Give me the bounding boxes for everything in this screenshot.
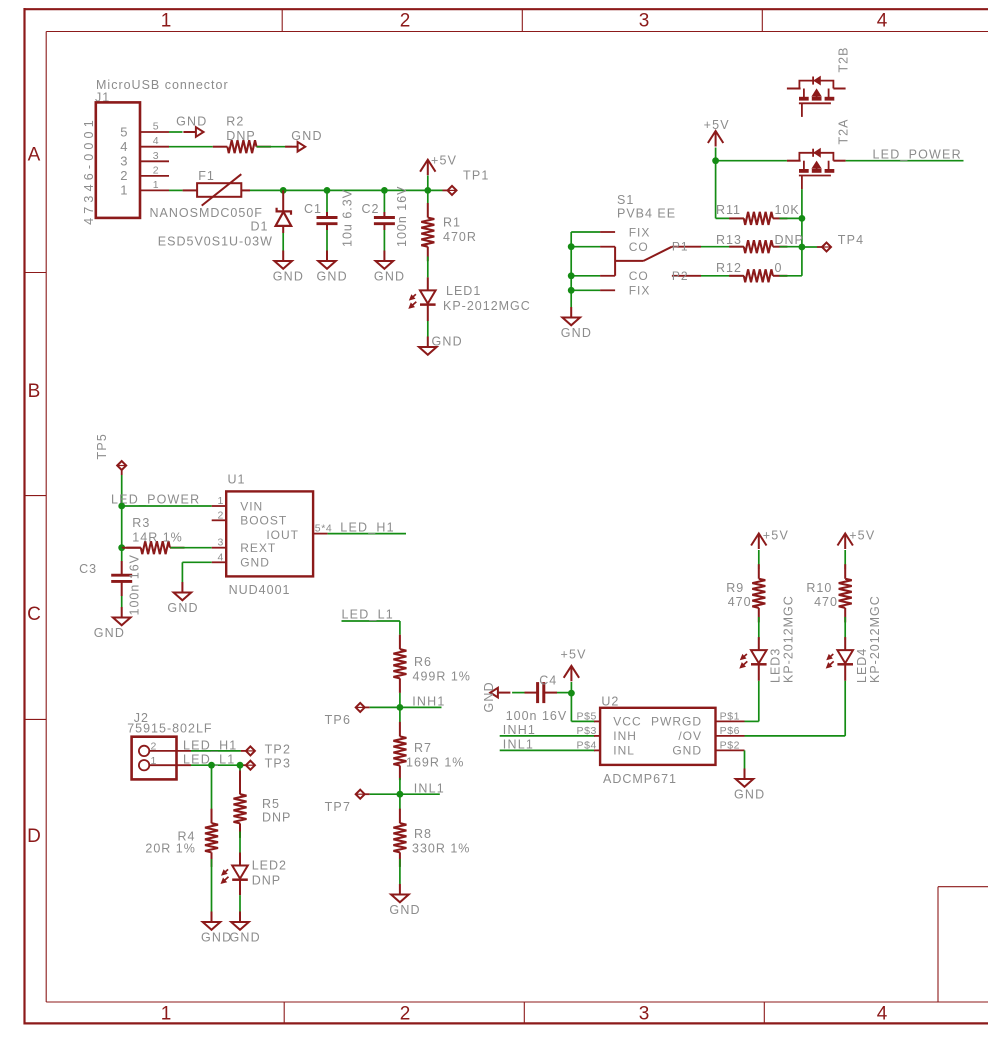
wire GND to C4	[512, 692, 524, 694]
wire R3 to U1 pin3	[171, 547, 212, 549]
fuse F1	[183, 169, 250, 206]
svg-text:1: 1	[161, 11, 172, 32]
wire P2 to R12	[701, 275, 744, 277]
svg-text:4: 4	[218, 551, 224, 563]
svg-text:+5V: +5V	[849, 529, 875, 543]
wire R13 to node	[780, 246, 802, 248]
svg-text:3: 3	[639, 11, 650, 32]
junction LED_POWER/TP5	[118, 503, 125, 510]
net LED_L1 wire (J2)	[183, 753, 246, 767]
svg-text:LED4: LED4	[855, 648, 869, 683]
svg-text:GND: GND	[273, 270, 304, 284]
svg-text:LED1: LED1	[446, 284, 481, 298]
wire LED2 to GND	[239, 895, 241, 911]
testpoint TP6	[325, 703, 365, 727]
transistor T2B	[787, 47, 851, 117]
connector J2 labels	[127, 711, 212, 736]
svg-text:470: 470	[728, 595, 752, 609]
svg-text:GND: GND	[482, 681, 496, 712]
svg-text:TP1: TP1	[463, 169, 490, 183]
wire pin5 to GND	[169, 131, 183, 133]
svg-text:0: 0	[775, 261, 783, 275]
svg-text:MicroUSB connector: MicroUSB connector	[96, 78, 229, 92]
resistor R4	[145, 809, 218, 867]
svg-text:LED2: LED2	[252, 859, 287, 873]
svg-text:INH1: INH1	[503, 723, 536, 737]
svg-text:ESD5V0S1U-03W: ESD5V0S1U-03W	[158, 235, 273, 249]
wire P$1 to LED3	[745, 681, 759, 722]
junction J2-R4	[208, 762, 215, 769]
svg-text:LED_H1: LED_H1	[340, 521, 394, 535]
svg-text:P1: P1	[672, 240, 689, 254]
svg-text:DNP: DNP	[262, 811, 291, 825]
net LED_POWER label (U1)	[111, 493, 200, 507]
wire R5 to LED2	[239, 832, 241, 853]
junction J2-R5	[237, 762, 244, 769]
wire C4 to +5V node	[557, 692, 571, 694]
ground (D1)	[273, 251, 304, 284]
wire INL1 node to R8	[399, 794, 401, 809]
svg-text:LED3: LED3	[769, 648, 783, 683]
svg-text:GND: GND	[317, 270, 348, 284]
diode D1	[251, 190, 292, 233]
svg-text:2: 2	[400, 11, 411, 32]
svg-text:GND: GND	[672, 743, 702, 757]
svg-text:C1: C1	[304, 202, 322, 216]
wire R8 to GND	[399, 859, 401, 884]
svg-text:1: 1	[218, 495, 224, 507]
svg-text:100n 16V: 100n 16V	[506, 709, 568, 723]
svg-text:C4: C4	[539, 674, 557, 688]
wire C1 to GND	[326, 230, 328, 251]
wire R10 to LED4	[844, 617, 846, 640]
wire +5V down to R11	[716, 161, 744, 219]
wire P1 to R13	[701, 246, 744, 248]
svg-text:20R 1%: 20R 1%	[145, 842, 195, 856]
junction gate/R11	[799, 215, 806, 222]
svg-text:1: 1	[151, 755, 157, 767]
svg-text:100n 16V: 100n 16V	[395, 185, 409, 247]
resistor R6	[393, 635, 471, 693]
svg-text:IOUT: IOUT	[266, 528, 299, 542]
svg-text:D: D	[27, 826, 41, 847]
svg-text:B: B	[28, 381, 41, 402]
svg-text:5: 5	[120, 124, 127, 139]
transistor T2A	[787, 119, 851, 190]
wire P$2 to GND	[744, 750, 746, 768]
ground (C2)	[374, 251, 405, 284]
svg-text:GND: GND	[167, 601, 198, 615]
wire pin4 to R2	[169, 146, 213, 148]
wire R2 to GND	[257, 146, 293, 148]
svg-text:NANOSMDC050F: NANOSMDC050F	[150, 206, 263, 220]
svg-text:LED_H1: LED_H1	[183, 738, 237, 752]
resistor R11	[716, 203, 800, 225]
svg-text:3: 3	[153, 150, 159, 162]
op-amp U1 (NUD4001)	[212, 473, 333, 598]
svg-text:T2B: T2B	[837, 47, 851, 73]
svg-text:3: 3	[120, 154, 127, 169]
junction S1 FIX2	[568, 287, 575, 294]
wire R11 to gate node	[780, 217, 802, 219]
svg-text:R7: R7	[414, 741, 432, 755]
ground (U2)	[734, 769, 765, 802]
wire rail to C2	[383, 190, 385, 212]
svg-text:2: 2	[153, 164, 159, 176]
svg-text:R10: R10	[806, 581, 832, 595]
J1 pin numbers	[120, 121, 159, 198]
wire U1 pin4 to GND	[182, 562, 211, 582]
svg-text:GND: GND	[291, 129, 322, 143]
wire +5V to T2A	[716, 160, 787, 162]
connector J1 label	[95, 78, 229, 105]
svg-text:FIX: FIX	[629, 284, 651, 298]
net INH1 wire (U2)	[500, 723, 595, 737]
svg-text:T2A: T2A	[837, 119, 851, 145]
testpoint TP7	[325, 790, 365, 814]
junction R3 node	[118, 544, 125, 551]
D1 value	[158, 235, 273, 249]
svg-text:INH: INH	[613, 729, 637, 743]
svg-text:INL1: INL1	[414, 781, 445, 795]
svg-text:TP5: TP5	[95, 433, 109, 460]
svg-text:/OV: /OV	[678, 729, 702, 743]
svg-text:+5V: +5V	[561, 648, 587, 662]
net LED_H1 wire	[328, 521, 406, 535]
svg-text:KP-2012MGC: KP-2012MGC	[868, 595, 882, 683]
resistor R10	[806, 564, 851, 622]
svg-text:R1: R1	[443, 216, 461, 230]
svg-text:R3: R3	[132, 516, 150, 530]
svg-text:C3: C3	[79, 562, 97, 576]
title block corner	[938, 887, 988, 1002]
svg-text:GND: GND	[240, 556, 270, 570]
svg-text:GND: GND	[389, 903, 420, 917]
svg-text:FIX: FIX	[629, 225, 651, 239]
wire INL1	[365, 781, 445, 795]
svg-text:DNP: DNP	[226, 129, 255, 143]
net LED_L1 wire (chain)	[342, 608, 400, 635]
wire C2 to GND	[383, 230, 385, 251]
svg-text:VIN: VIN	[240, 499, 263, 513]
wire R6 to INH1 node	[399, 693, 401, 708]
testpoint TP4	[822, 233, 864, 252]
wire T2A gate down	[801, 189, 803, 218]
svg-text:C2: C2	[362, 202, 380, 216]
resistor R13	[716, 233, 804, 253]
ground (C1)	[317, 251, 348, 284]
testpoint TP5	[95, 433, 126, 470]
svg-text:470: 470	[814, 595, 838, 609]
svg-text:U2: U2	[601, 695, 619, 709]
wire +5V node to U2 VCC	[571, 693, 595, 721]
connector J1	[82, 102, 140, 224]
junction C4/+5V	[568, 690, 575, 697]
svg-text:P$5: P$5	[577, 710, 597, 722]
svg-text:P$3: P$3	[577, 725, 597, 737]
svg-text:100n 16V: 100n 16V	[128, 554, 142, 616]
junction rail-C1	[324, 187, 331, 194]
svg-text:F1: F1	[198, 169, 215, 183]
svg-text:1: 1	[153, 179, 159, 191]
wire R1 to LED1	[427, 257, 429, 278]
svg-text:TP4: TP4	[838, 233, 865, 247]
svg-text:R13: R13	[716, 233, 742, 247]
wire INH1	[365, 695, 446, 709]
svg-text:47346-0001: 47346-0001	[82, 116, 96, 225]
wire R7 to INL1 node	[399, 778, 401, 794]
wire LED1 to GND	[427, 321, 429, 337]
junction rail-D1	[280, 187, 287, 194]
svg-text:R11: R11	[716, 203, 741, 217]
svg-text:A: A	[28, 145, 41, 166]
capacitor C1	[304, 189, 355, 247]
svg-text:R2: R2	[226, 115, 244, 129]
resistor R3	[122, 516, 185, 554]
resistor R8	[393, 809, 470, 867]
svg-text:U1: U1	[228, 473, 246, 487]
svg-text:REXT: REXT	[240, 541, 276, 555]
wire C3 to GND	[121, 596, 123, 607]
net INL1 wire (U2)	[500, 738, 595, 752]
comparator U2 (ADCMP671)	[577, 695, 745, 786]
wire R12 to node	[780, 275, 802, 277]
ground (U1)	[167, 582, 198, 615]
wire pin1 to F1	[169, 189, 183, 191]
wire C3 column	[121, 548, 123, 561]
capacitor C3	[79, 554, 141, 616]
ground (C3)	[94, 607, 131, 640]
svg-text:10K: 10K	[775, 203, 800, 217]
ground (R8)	[389, 884, 420, 917]
svg-text:2: 2	[120, 168, 127, 183]
LED LED4	[826, 595, 882, 683]
wire LED_POWER down	[121, 506, 123, 548]
svg-text:LED_POWER: LED_POWER	[873, 147, 962, 161]
svg-text:TP7: TP7	[325, 800, 352, 814]
capacitor C4	[506, 674, 568, 724]
wire TP5 down	[121, 470, 123, 506]
wire down to R5	[239, 765, 241, 794]
svg-text:ADCMP671: ADCMP671	[603, 772, 677, 786]
svg-text:C: C	[27, 604, 41, 625]
wire node to TP4	[802, 246, 822, 248]
svg-text:CO: CO	[629, 240, 649, 254]
junction rail-R1	[424, 187, 431, 194]
svg-text:+5V: +5V	[704, 118, 730, 132]
svg-text:GND: GND	[374, 270, 405, 284]
supply +5V (R10)	[838, 529, 876, 570]
svg-text:P$2: P$2	[720, 739, 740, 751]
svg-text:499R 1%: 499R 1%	[413, 670, 471, 684]
ground (R4)	[201, 912, 232, 945]
testpoint TP1	[448, 169, 490, 195]
wire R9 to LED3	[758, 617, 760, 640]
svg-text:VCC: VCC	[613, 715, 641, 729]
svg-text:GND: GND	[201, 931, 232, 945]
junction +5V/T2A	[712, 157, 719, 164]
svg-text:R8: R8	[414, 827, 432, 841]
svg-text:GND: GND	[561, 326, 592, 340]
resistor R7	[393, 722, 464, 780]
svg-text:KP-2012MGC: KP-2012MGC	[443, 299, 531, 313]
ground (LED1)	[419, 335, 463, 355]
svg-text:330R 1%: 330R 1%	[412, 842, 470, 856]
svg-text:+5V: +5V	[763, 529, 789, 543]
wire down to R4	[211, 765, 213, 822]
svg-text:GND: GND	[94, 626, 125, 640]
svg-text:PVB4 EE: PVB4 EE	[617, 207, 676, 221]
svg-text:R5: R5	[262, 797, 280, 811]
svg-text:+5V: +5V	[431, 153, 457, 167]
svg-text:TP3: TP3	[265, 757, 292, 771]
junction S1 CO2	[568, 272, 575, 279]
supply +5V (R9)	[751, 529, 789, 570]
svg-text:INL: INL	[613, 743, 635, 757]
svg-text:2: 2	[151, 740, 157, 752]
resistor R12	[716, 261, 787, 283]
junction INH1	[397, 704, 404, 711]
wire S1 common bus	[571, 232, 600, 307]
svg-text:R12: R12	[716, 261, 742, 275]
svg-text:PWRGD: PWRGD	[651, 715, 702, 729]
svg-text:14R 1%: 14R 1%	[132, 531, 182, 545]
wire R4 to GND	[211, 859, 213, 912]
svg-text:BOOST: BOOST	[240, 514, 287, 528]
junction TP4 node	[799, 244, 806, 251]
F1 value NANOSMDC050F	[150, 206, 263, 220]
svg-text:INH1: INH1	[412, 695, 445, 709]
wire rail to R1	[427, 190, 429, 203]
testpoint TP3	[246, 757, 291, 771]
svg-text:R6: R6	[414, 655, 432, 669]
net LED_POWER wire	[846, 147, 964, 161]
svg-text:GND: GND	[230, 931, 261, 945]
svg-text:TP6: TP6	[325, 713, 352, 727]
testpoint TP2	[246, 743, 291, 757]
connector J2	[132, 737, 191, 780]
resistor R2	[213, 115, 271, 154]
svg-text:3: 3	[639, 1004, 650, 1025]
resistor R5	[234, 780, 292, 838]
LED LED2	[221, 853, 287, 896]
svg-text:D1: D1	[251, 220, 269, 234]
svg-text:4: 4	[153, 135, 159, 147]
svg-text:GND: GND	[432, 335, 463, 349]
junction S1 CO1	[568, 243, 575, 250]
svg-text:1: 1	[120, 183, 127, 198]
wire INH1 node to R7	[399, 707, 401, 722]
svg-text:INL1: INL1	[503, 738, 534, 752]
svg-text:KP-2012MGC: KP-2012MGC	[782, 595, 796, 683]
svg-text:5: 5	[153, 121, 159, 133]
svg-text:75915-802LF: 75915-802LF	[127, 722, 212, 736]
svg-text:169R 1%: 169R 1%	[406, 756, 464, 770]
svg-text:2: 2	[218, 509, 224, 521]
wire P$6 to LED4	[745, 681, 846, 736]
net LED_H1 wire (J2)	[183, 738, 246, 752]
ground (S1)	[561, 307, 592, 340]
svg-text:3: 3	[218, 537, 224, 549]
svg-text:P$4: P$4	[577, 739, 597, 751]
svg-text:TP2: TP2	[265, 743, 292, 757]
svg-text:4: 4	[877, 1004, 888, 1025]
svg-text:P2: P2	[672, 269, 689, 283]
supply +5V (rail)	[420, 153, 457, 190]
J1 pin stubs	[140, 132, 169, 190]
svg-text:R9: R9	[726, 581, 744, 595]
supply +5V (U2)	[561, 648, 587, 694]
supply +5V (T2A)	[704, 118, 730, 161]
resistor R9	[726, 564, 765, 622]
svg-text:2: 2	[400, 1004, 411, 1025]
LED LED1	[408, 277, 531, 321]
wire rail to C1	[326, 190, 328, 212]
wire LED_POWER to U1 pin1	[122, 505, 212, 507]
svg-text:10u 6.3V: 10u 6.3V	[341, 189, 355, 247]
LED LED3	[739, 595, 795, 683]
junction INL1	[397, 791, 404, 798]
svg-text:S1: S1	[617, 193, 634, 207]
svg-text:DNP: DNP	[775, 233, 804, 247]
supply GND arrow (J1 pin 5)	[176, 115, 207, 137]
svg-text:GND: GND	[734, 788, 765, 802]
svg-text:P$6: P$6	[720, 725, 740, 737]
supply GND arrow (R2)	[285, 129, 323, 151]
switch S1	[600, 225, 701, 297]
resistor R1	[421, 203, 477, 261]
svg-text:GND: GND	[176, 115, 207, 129]
svg-text:CO: CO	[629, 269, 649, 283]
svg-text:4: 4	[877, 11, 888, 32]
svg-text:LED_L1: LED_L1	[342, 608, 394, 622]
svg-text:DNP: DNP	[252, 874, 281, 888]
ground (LED2)	[230, 912, 261, 945]
svg-text:470R: 470R	[443, 230, 477, 244]
svg-text:1: 1	[161, 1004, 172, 1025]
svg-text:4: 4	[120, 139, 127, 154]
junction rail-C2	[381, 187, 388, 194]
wire gate node down	[801, 218, 803, 275]
svg-text:NUD4001: NUD4001	[229, 583, 291, 597]
wire D1 to GND	[282, 233, 284, 251]
supply GND arrow (C4)	[482, 681, 510, 712]
svg-text:P$1: P$1	[720, 710, 740, 722]
switch S1 labels	[617, 193, 676, 221]
wire +5V rail	[250, 189, 448, 191]
capacitor C2	[362, 185, 410, 247]
